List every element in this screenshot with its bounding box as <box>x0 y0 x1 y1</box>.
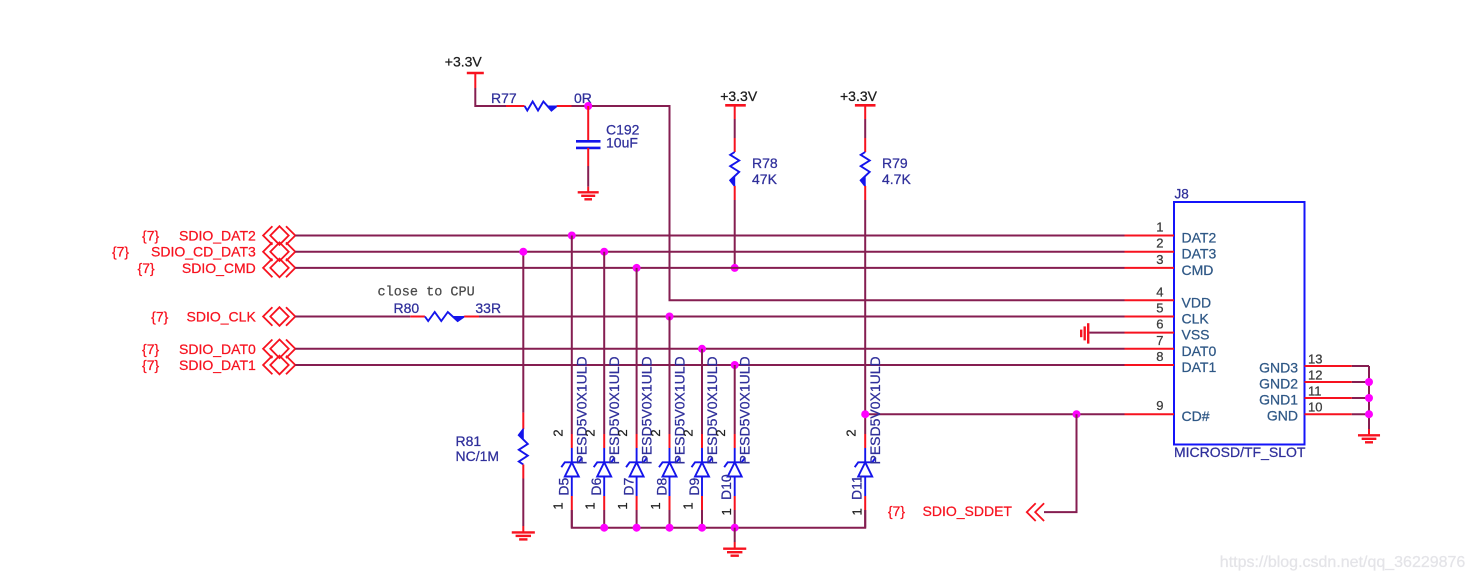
svg-text:D6: D6 <box>588 477 604 495</box>
svg-text:2: 2 <box>615 429 630 436</box>
ground (connector GND) <box>1358 429 1380 442</box>
port SDIO_DAT1 <box>263 356 295 375</box>
wire D6 drop from signal row <box>603 252 605 434</box>
wire +3.3V to R78 <box>734 119 736 138</box>
label {7} SDIO_DAT1 <box>142 357 256 373</box>
svg-text:SDIO_CLK: SDIO_CLK <box>187 309 257 325</box>
svg-text:4.7K: 4.7K <box>882 171 911 187</box>
wire R81 to ground <box>522 479 524 527</box>
svg-text:+3.3V: +3.3V <box>720 88 758 104</box>
svg-text:{7}: {7} <box>142 228 159 244</box>
svg-text:SDIO_DAT0: SDIO_DAT0 <box>179 341 256 357</box>
svg-text:{7}: {7} <box>112 244 129 260</box>
svg-text:SDIO_DAT2: SDIO_DAT2 <box>179 228 256 244</box>
wire D10 to ESD bus <box>734 510 736 528</box>
wire net SDIO_DAT0 <box>295 348 1124 350</box>
junction SDIO_CLK / D8 <box>666 313 674 321</box>
svg-text:PESD5V0X1ULD: PESD5V0X1ULD <box>574 356 590 464</box>
svg-text:https://blog.csdn.net/qq_36229: https://blog.csdn.net/qq_36229876 <box>1220 554 1466 571</box>
label {7} SDIO_SDDET <box>888 503 1013 519</box>
power +3.3V (R78 rail) <box>720 88 758 119</box>
svg-text:{7}: {7} <box>151 309 168 325</box>
pin 8 DAT1 stub <box>1125 364 1175 366</box>
svg-text:1: 1 <box>850 508 865 515</box>
svg-text:R81: R81 <box>456 433 482 449</box>
wire SDDET branch <box>1044 414 1077 512</box>
wire net CD# (D11/R79 to pin 9) <box>865 413 1124 415</box>
svg-text:6: 6 <box>1156 317 1163 332</box>
svg-text:1: 1 <box>615 502 630 509</box>
svg-text:2: 2 <box>583 429 598 436</box>
svg-text:CD#: CD# <box>1182 408 1210 424</box>
wire pin 11 to GND rail <box>1352 397 1369 399</box>
port SDIO_CLK <box>263 307 295 326</box>
svg-text:PESD5V0X1ULD: PESD5V0X1ULD <box>638 356 654 464</box>
diode D9 (PESD5V0X1ULD) <box>692 434 713 510</box>
svg-text:{7}: {7} <box>888 503 905 519</box>
diode D8 (PESD5V0X1ULD) <box>659 434 680 510</box>
connector J8 body <box>1174 202 1305 445</box>
wire pin 12 to GND rail <box>1352 381 1369 383</box>
svg-text:DAT2: DAT2 <box>1182 230 1217 246</box>
svg-text:PESD5V0X1ULD: PESD5V0X1ULD <box>867 356 883 464</box>
wire net SDIO_CMD <box>295 267 1124 269</box>
svg-text:1: 1 <box>1156 220 1163 235</box>
svg-text:SDIO_CMD: SDIO_CMD <box>182 260 256 276</box>
wire net SDIO_CLK (port to R80) <box>295 316 410 318</box>
wire D5 to ESD bus <box>571 510 573 528</box>
svg-text:2: 2 <box>681 429 696 436</box>
svg-text:10: 10 <box>1308 400 1322 415</box>
wire +3.3V to R77 <box>475 88 506 106</box>
svg-text:2: 2 <box>713 429 728 436</box>
resistor R79 <box>860 138 869 200</box>
svg-text:1: 1 <box>648 502 663 509</box>
pin 4 VDD stub <box>1125 299 1175 301</box>
svg-text:3: 3 <box>1156 252 1163 267</box>
svg-text:2: 2 <box>648 429 663 436</box>
svg-text:11: 11 <box>1308 384 1322 399</box>
svg-text:+3.3V: +3.3V <box>840 88 878 104</box>
svg-text:D5: D5 <box>556 477 572 495</box>
wire D10 drop from signal row <box>734 365 736 434</box>
wire GND rail vertical <box>1368 366 1370 429</box>
svg-text:1: 1 <box>719 508 734 515</box>
svg-text:DAT3: DAT3 <box>1182 246 1217 262</box>
svg-text:{7}: {7} <box>138 260 155 276</box>
svg-text:CMD: CMD <box>1182 262 1214 278</box>
svg-text:PESD5V0X1ULD: PESD5V0X1ULD <box>737 356 753 464</box>
svg-text:DAT1: DAT1 <box>1182 359 1217 375</box>
svg-text:1: 1 <box>583 502 598 509</box>
junction bus / D9 <box>698 524 706 532</box>
capacitor C192 <box>576 106 601 166</box>
diode D11 (PESD5V0X1ULD) <box>855 434 876 510</box>
junction CD# / SDDET branch <box>1073 410 1081 418</box>
wire D6 to ESD bus <box>603 510 605 528</box>
svg-text:GND3: GND3 <box>1259 360 1298 376</box>
svg-text:R78: R78 <box>752 155 778 171</box>
wire D9 to ESD bus <box>701 510 703 528</box>
svg-text:SDIO_SDDET: SDIO_SDDET <box>923 503 1013 519</box>
wire C192 to ground <box>587 166 589 187</box>
diode D10 (PESD5V0X1ULD) <box>724 434 745 510</box>
junction SDIO_CD_DAT3 / D6 <box>600 248 608 256</box>
junction bus / D10 <box>731 524 739 532</box>
svg-text:PESD5V0X1ULD: PESD5V0X1ULD <box>704 356 720 464</box>
svg-text:47K: 47K <box>752 171 778 187</box>
pin 11 GND1 stub <box>1305 397 1352 399</box>
svg-text:close to CPU: close to CPU <box>378 286 475 301</box>
pin 12 GND2 stub <box>1305 381 1352 383</box>
diode D5 (PESD5V0X1ULD) <box>561 434 582 510</box>
svg-text:2: 2 <box>550 429 565 436</box>
svg-text:GND2: GND2 <box>1259 376 1298 392</box>
wire D8 to ESD bus <box>669 510 671 528</box>
resistor R81 <box>519 413 528 479</box>
wire net SDIO_CLK (R80 to pin 5) <box>479 316 1125 318</box>
port SDIO_DAT2 <box>263 226 295 245</box>
junction CD# / D11 / R79 <box>861 410 869 418</box>
wire SDIO_CD_DAT3 to R81 <box>522 252 524 413</box>
pin 5 CLK stub <box>1125 316 1175 318</box>
wire pin 13 to GND rail <box>1352 365 1369 367</box>
svg-text:PESD5V0X1ULD: PESD5V0X1ULD <box>671 356 687 464</box>
resistor R78 <box>730 138 739 200</box>
svg-text:DAT0: DAT0 <box>1182 343 1217 359</box>
svg-text:2: 2 <box>844 429 859 436</box>
junction SDIO_DAT0 / D9 <box>698 345 706 353</box>
wire bus to ground <box>734 528 736 542</box>
ground (VSS pin 6) <box>1081 323 1088 343</box>
junction GND rail / pin 10 <box>1365 410 1373 418</box>
svg-text:33R: 33R <box>475 300 501 316</box>
pin 10 GND stub <box>1305 413 1352 415</box>
pin 2 DAT3 stub <box>1125 251 1175 253</box>
svg-text:D7: D7 <box>620 477 636 495</box>
svg-text:MICROSD/TF_SLOT: MICROSD/TF_SLOT <box>1174 444 1306 460</box>
label {7} SDIO_DAT2 <box>142 228 256 244</box>
label {7} SDIO_CD_DAT3 <box>112 244 256 260</box>
port SDIO_CD_DAT3 <box>263 242 295 261</box>
label {7} SDIO_CLK <box>151 309 256 325</box>
pin 3 CMD stub <box>1125 267 1175 269</box>
wire D11 to ESD bus <box>864 510 866 528</box>
svg-text:D9: D9 <box>686 477 702 495</box>
svg-text:4: 4 <box>1156 284 1163 299</box>
wire D7 drop from signal row <box>636 268 638 434</box>
diode D7 (PESD5V0X1ULD) <box>626 434 647 510</box>
svg-text:{7}: {7} <box>142 357 159 373</box>
resistor R77 <box>506 102 572 111</box>
junction bus / D7 <box>633 524 641 532</box>
diode D6 (PESD5V0X1ULD) <box>594 434 615 510</box>
svg-text:8: 8 <box>1156 349 1163 364</box>
resistor R80 <box>410 312 479 321</box>
svg-text:GND: GND <box>1267 408 1298 424</box>
svg-text:D11: D11 <box>849 475 865 500</box>
svg-text:10uF: 10uF <box>606 135 638 151</box>
svg-text:+3.3V: +3.3V <box>445 54 483 70</box>
pin 7 DAT0 stub <box>1125 348 1175 350</box>
svg-text:PESD5V0X1ULD: PESD5V0X1ULD <box>606 356 622 464</box>
svg-text:12: 12 <box>1308 368 1322 383</box>
svg-text:{7}: {7} <box>142 341 159 357</box>
wire 0R output net to VDD pin 4 <box>572 106 1125 300</box>
junction R78 / SDIO_CMD <box>731 264 739 272</box>
junction SDIO_CMD / D7 <box>633 264 641 272</box>
svg-text:R80: R80 <box>394 300 420 316</box>
svg-text:9: 9 <box>1156 398 1163 413</box>
svg-text:VDD: VDD <box>1182 294 1212 310</box>
svg-text:NC/1M: NC/1M <box>456 448 500 464</box>
wire D9 drop from signal row <box>701 349 703 434</box>
svg-text:2: 2 <box>1156 236 1163 251</box>
svg-text:13: 13 <box>1308 352 1322 367</box>
svg-text:GND1: GND1 <box>1259 392 1298 408</box>
ground (ESD bus) <box>723 542 746 556</box>
wire R78 to SDIO_CMD <box>734 200 736 268</box>
wire D8 drop from signal row <box>669 317 671 435</box>
pin 13 GND3 stub <box>1305 365 1352 367</box>
svg-text:J8: J8 <box>1175 187 1189 202</box>
junction bus / D6 <box>600 524 608 532</box>
junction 0R / C192 <box>584 102 592 110</box>
junction GND rail / pin 11 <box>1365 394 1373 402</box>
port SDIO_CMD <box>263 259 295 278</box>
power +3.3V (R77 rail) <box>445 54 484 89</box>
wire D11 drop from signal row <box>864 414 866 434</box>
svg-text:SDIO_CD_DAT3: SDIO_CD_DAT3 <box>151 244 256 260</box>
junction SDIO_DAT2 / D5 <box>568 232 576 240</box>
junction SDIO_CD_DAT3 / R81 <box>519 248 527 256</box>
wire D7 to ESD bus <box>636 510 638 528</box>
svg-text:R77: R77 <box>491 90 517 106</box>
svg-text:SDIO_DAT1: SDIO_DAT1 <box>179 357 256 373</box>
port SDIO_SDDET <box>1027 503 1044 521</box>
wire net SDIO_DAT2 <box>295 235 1124 237</box>
label {7} SDIO_DAT0 <box>142 341 256 357</box>
svg-text:R79: R79 <box>882 155 908 171</box>
junction GND rail / pin 12 <box>1365 378 1373 386</box>
wire ESD ground bus <box>572 510 865 528</box>
junction SDIO_DAT1 / D10 <box>731 361 739 369</box>
svg-text:D8: D8 <box>653 477 669 495</box>
label {7} SDIO_CMD <box>138 260 256 276</box>
ground (C192) <box>578 187 599 200</box>
pin 1 DAT2 stub <box>1125 235 1175 237</box>
svg-text:1: 1 <box>681 502 696 509</box>
pin 9 CD# stub <box>1125 413 1175 415</box>
svg-text:5: 5 <box>1156 301 1163 316</box>
wire pin 10 to GND rail <box>1352 413 1369 415</box>
wire VSS to pin 6 <box>1089 332 1124 334</box>
svg-text:D10: D10 <box>718 474 734 500</box>
power +3.3V (R79 rail) <box>840 88 878 119</box>
svg-text:CLK: CLK <box>1182 311 1210 327</box>
wire D5 drop from signal row <box>571 236 573 435</box>
wire +3.3V to R79 <box>864 119 866 138</box>
wire net SDIO_CD_DAT3 <box>295 251 1124 253</box>
svg-text:1: 1 <box>550 502 565 509</box>
port SDIO_DAT0 <box>263 340 295 359</box>
wire R79 to CD# net <box>864 200 866 414</box>
wire net SDIO_DAT1 <box>295 364 1124 366</box>
svg-text:VSS: VSS <box>1182 327 1210 343</box>
svg-text:7: 7 <box>1156 333 1163 348</box>
junction bus / D8 <box>666 524 674 532</box>
ground (R81) <box>512 526 535 539</box>
pin 6 VSS stub <box>1125 332 1175 334</box>
